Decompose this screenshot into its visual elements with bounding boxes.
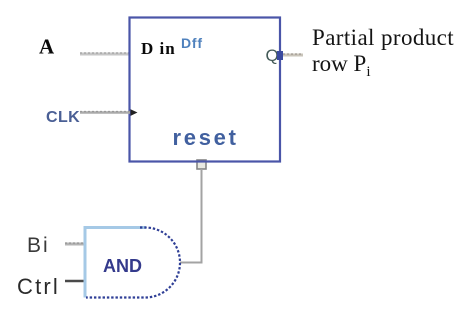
svg-text:reset: reset	[173, 125, 239, 150]
pin marker Q (edge blob)	[277, 51, 283, 60]
svg-text:CLK: CLK	[46, 109, 80, 126]
clock pin arrowhead	[131, 109, 138, 116]
svg-text:row Pi: row Pi	[312, 51, 370, 80]
svg-text:Q: Q	[266, 46, 279, 65]
wire CLK to clock pin	[80, 111, 130, 114]
svg-text:Dff: Dff	[181, 35, 203, 51]
reset pin marker square	[197, 160, 206, 169]
svg-text:A: A	[39, 35, 55, 59]
svg-text:Partial product: Partial product	[312, 25, 454, 50]
svg-text:D in: D in	[141, 39, 176, 58]
svg-text:AND: AND	[103, 256, 142, 276]
wire reset to AND output (vertical)	[180, 169, 202, 263]
svg-text:Bi: Bi	[27, 234, 50, 257]
wire A to Din	[80, 53, 129, 56]
wire Ctrl to AND input	[65, 280, 86, 282]
wire Q output stub	[283, 54, 303, 57]
wire Bi to AND input	[65, 243, 85, 246]
AND gate G1: curve and bottom (dotted)	[86, 228, 180, 298]
flip-flop U1 (Dff) body	[130, 18, 281, 162]
svg-text:Ctrl: Ctrl	[17, 274, 60, 299]
AND gate G1: left/top outline (highlight)	[85, 228, 146, 298]
